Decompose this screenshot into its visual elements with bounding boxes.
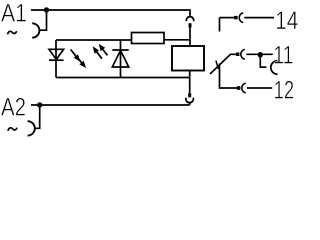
plug-in connection top socket (186, 17, 193, 22)
LED D1 (49, 49, 64, 60)
LED D2 (112, 50, 128, 67)
plug contact 11 pin (236, 53, 240, 57)
wire contact 14 row left (220, 17, 235, 19)
svg-text:A2: A2 (1, 93, 26, 121)
svg-text:A1: A1 (1, 0, 27, 27)
svg-text:14: 14 (275, 7, 298, 35)
wire LED1 branch (55, 40, 57, 78)
contact lever common 11 (210, 54, 236, 74)
wire A2 rail (31, 104, 190, 106)
wire 11 clamp drop (260, 55, 266, 67)
contact 12 fixed path (220, 64, 237, 89)
wire A1 rail (31, 10, 190, 16)
terminal clamp A2 (28, 121, 35, 135)
node 11 junction (258, 52, 263, 57)
wire LED bottom rail (56, 77, 190, 79)
node A1 junction (44, 7, 49, 12)
wire resistor to coil branch (164, 39, 190, 41)
plug-in connection bottom socket (186, 98, 194, 103)
node A2 junction (37, 102, 42, 107)
wire pin to coil top (189, 28, 191, 47)
AC symbol at A2 (8, 128, 17, 131)
svg-text:12: 12 (274, 76, 295, 104)
plug contact 14 pin (234, 16, 238, 19)
wire 12 row (247, 87, 272, 89)
terminal clamp 11 (271, 61, 278, 74)
wire 11 row (246, 53, 272, 55)
LED D1 emission arrows (71, 49, 86, 68)
contact 14 fixed stub (219, 18, 221, 32)
terminal clamp A1 (32, 23, 39, 37)
wire contact 14 row right (244, 17, 274, 19)
wire socket to A2 rail (189, 102, 191, 105)
plug-in connection top pin (189, 23, 192, 27)
plug-in connection bottom pin (188, 93, 191, 97)
wire coil bottom (189, 71, 191, 93)
plug contact 14 socket (239, 13, 243, 23)
lever tick (216, 61, 218, 69)
relay coil K1 (172, 46, 204, 71)
LED D2 emission arrows (93, 44, 108, 59)
wire LED2 branch (120, 40, 122, 78)
svg-text:11: 11 (273, 42, 293, 70)
wire LED top rail (56, 39, 132, 41)
wire A2 terminal drop (35, 105, 40, 128)
plug contact 12 socket (242, 83, 246, 93)
resistor R1 (132, 33, 165, 44)
wire A1 terminal drop (39, 10, 46, 30)
plug contact 11 socket (241, 49, 245, 59)
AC symbol at A1 (8, 31, 17, 34)
plug contact 12 pin (237, 86, 241, 90)
